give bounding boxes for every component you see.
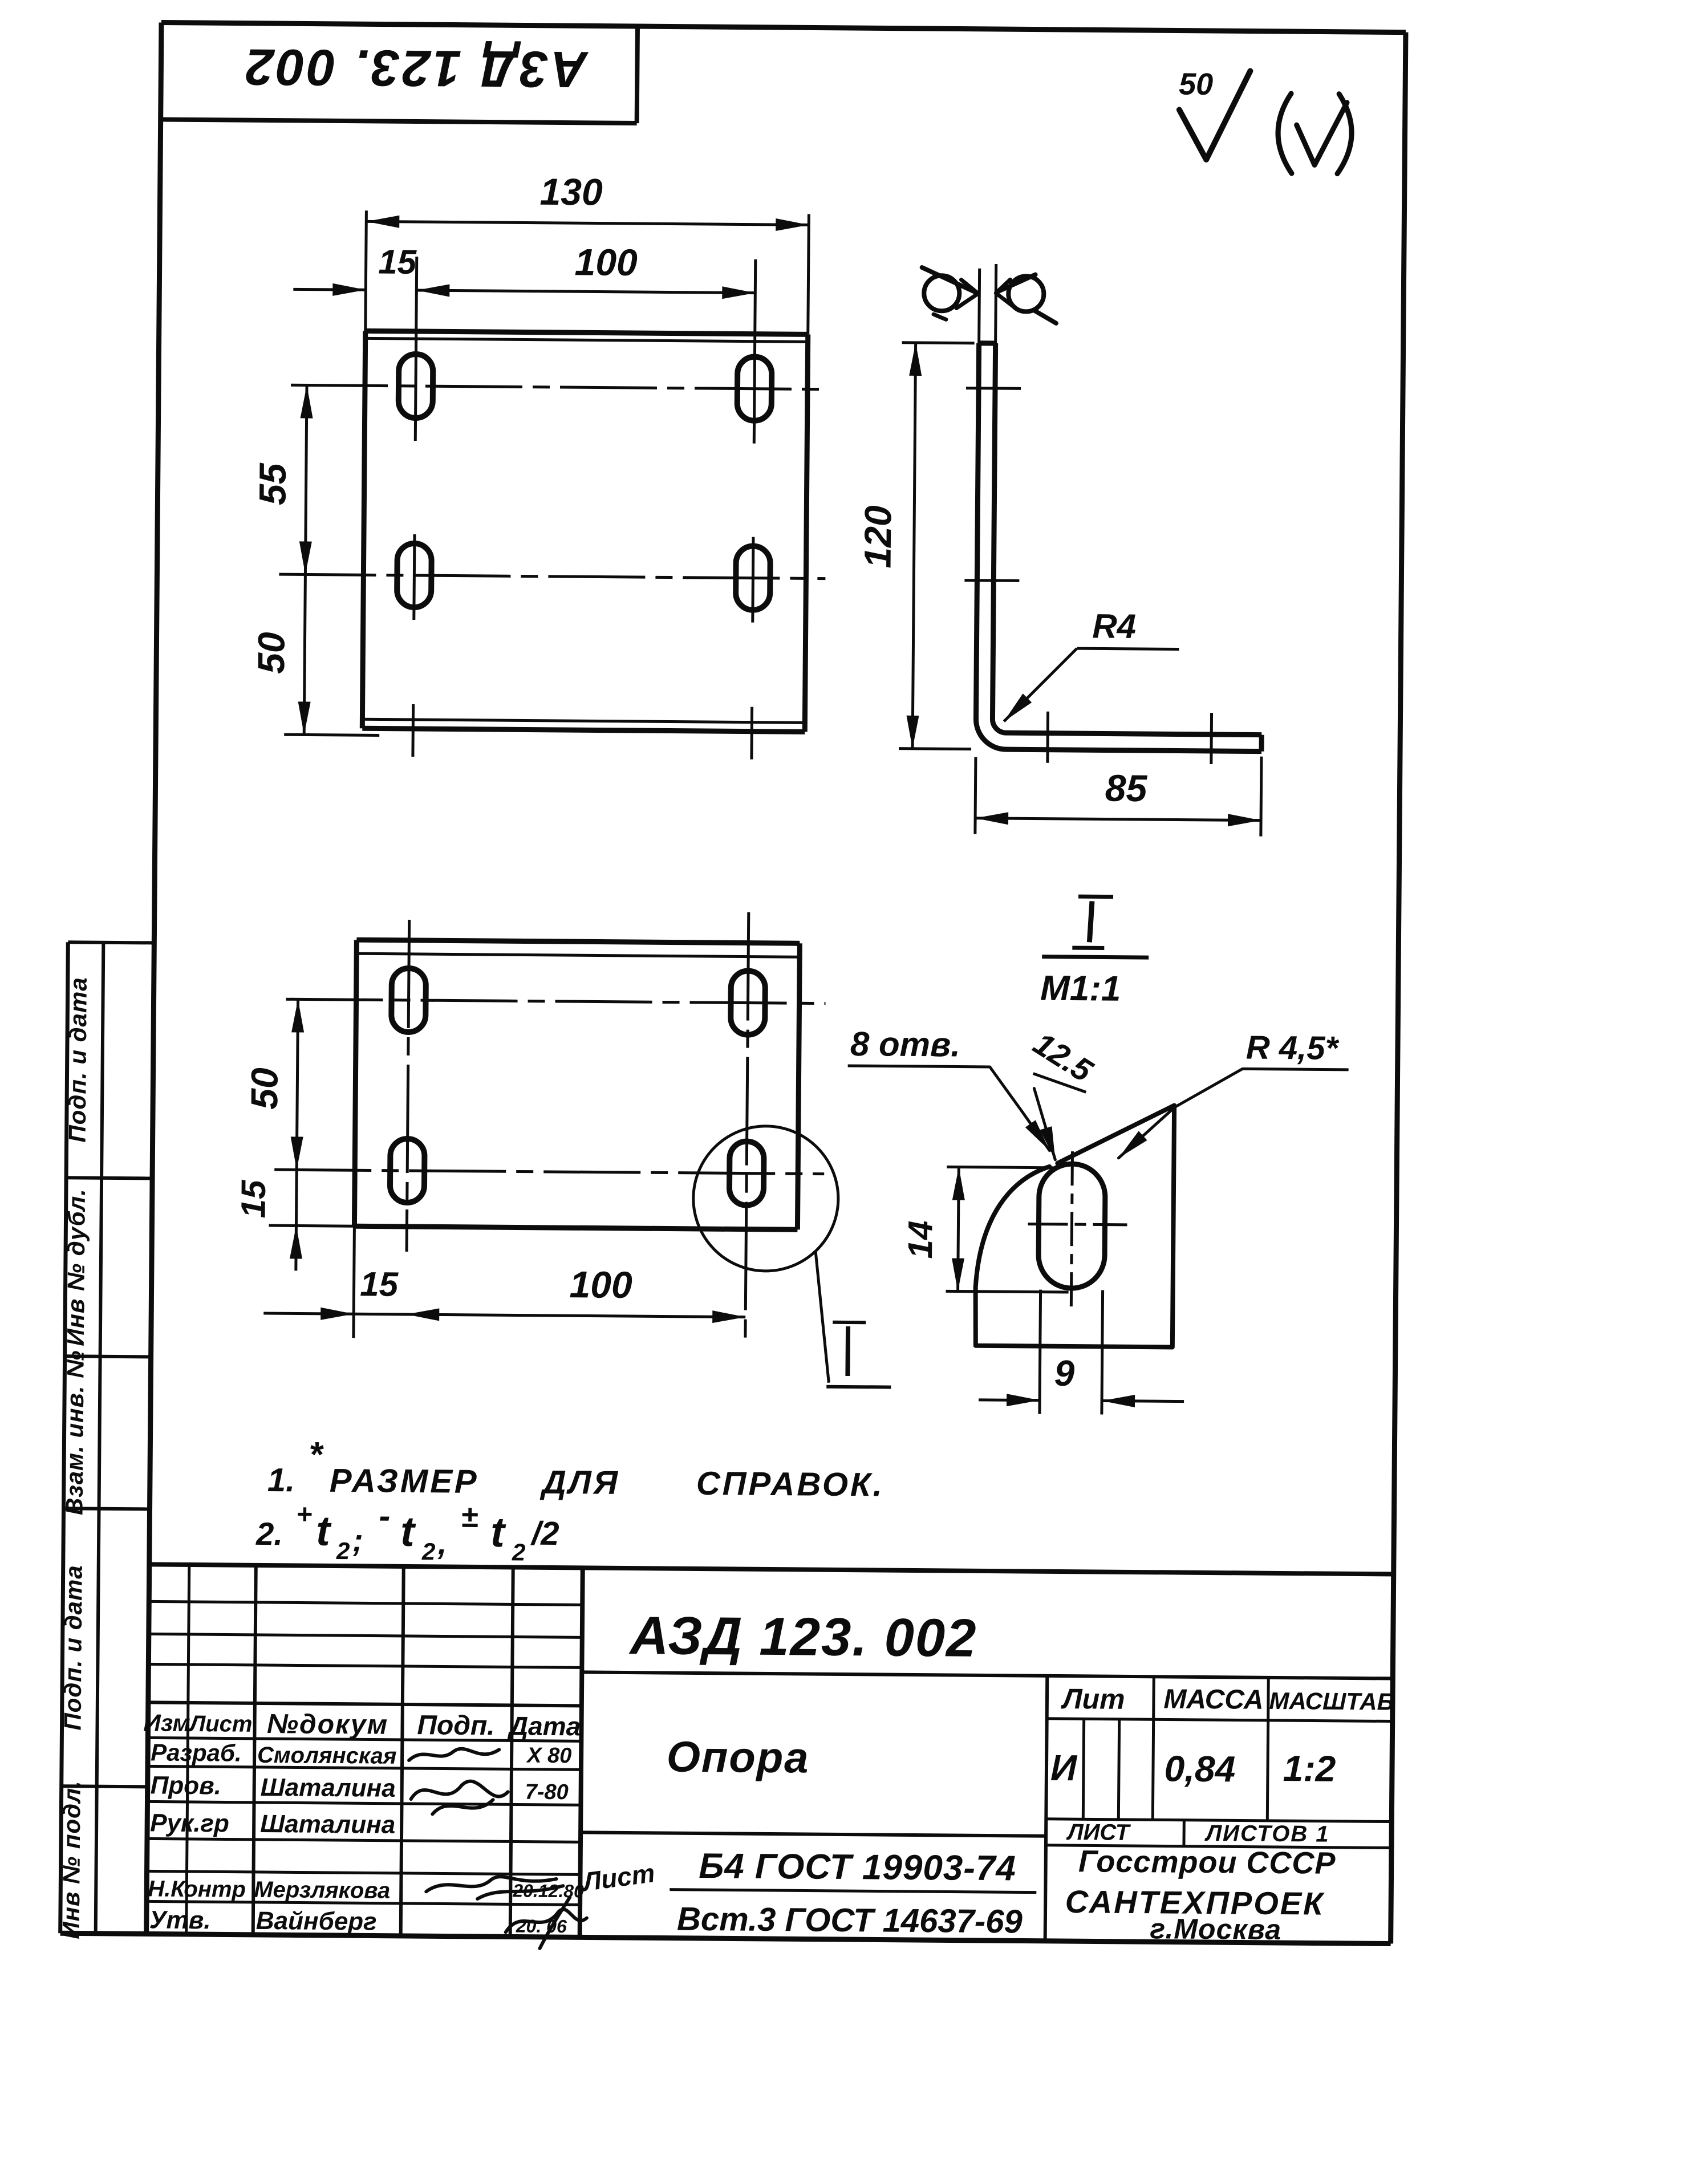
svg-text:Утв.: Утв. [149, 1906, 211, 1934]
svg-text:15: 15 [234, 1179, 273, 1219]
svg-text:8 отв.: 8 отв. [850, 1025, 960, 1064]
svg-text:Подп.: Подп. [417, 1710, 495, 1741]
svg-text:Лит: Лит [1061, 1683, 1125, 1715]
svg-text:АЗД 123. 002: АЗД 123. 002 [628, 1605, 977, 1668]
svg-text:Взам. инв. №: Взам. инв. № [60, 1350, 88, 1515]
svg-text:50: 50 [1179, 67, 1214, 102]
svg-text:Подп. и дата: Подп. и дата [59, 1565, 87, 1731]
svg-text:Инв № подл.: Инв № подл. [58, 1780, 86, 1939]
svg-text:100: 100 [574, 241, 638, 283]
svg-text:t: t [316, 1507, 332, 1554]
svg-text:X 80: X 80 [526, 1744, 571, 1768]
svg-text:МАСШТАБ: МАСШТАБ [1269, 1687, 1394, 1715]
svg-text:±: ± [461, 1500, 478, 1534]
svg-text:И: И [1050, 1747, 1078, 1788]
svg-text:Мерзлякова: Мерзлякова [254, 1877, 390, 1903]
svg-text:2: 2 [512, 1538, 526, 1565]
svg-text:130: 130 [539, 171, 603, 213]
svg-text:Вст.3 ГОСТ 14637-69: Вст.3 ГОСТ 14637-69 [677, 1901, 1023, 1941]
svg-text:РАЗМЕР: РАЗМЕР [330, 1462, 479, 1500]
svg-text:+: + [296, 1499, 312, 1529]
svg-text:Опора: Опора [666, 1733, 809, 1783]
svg-text:;: ; [352, 1522, 363, 1558]
svg-text:г.Москва: г.Москва [1150, 1913, 1281, 1946]
svg-text:Изм: Изм [143, 1709, 190, 1736]
svg-text:Шаталина: Шаталина [260, 1810, 395, 1839]
svg-text:85: 85 [1105, 767, 1148, 810]
svg-text:Госстрои СССР: Госстрои СССР [1078, 1844, 1336, 1881]
svg-text:0,84: 0,84 [1164, 1748, 1235, 1789]
svg-text:Рук.гр: Рук.гр [150, 1809, 229, 1837]
svg-text:ЛИСТ: ЛИСТ [1066, 1820, 1131, 1845]
svg-text:Разраб.: Разраб. [151, 1739, 242, 1766]
svg-text:2: 2 [421, 1538, 436, 1565]
svg-text:Пров.: Пров. [151, 1771, 222, 1800]
svg-text:50: 50 [243, 1067, 286, 1110]
svg-text:Н.Контр: Н.Контр [148, 1876, 246, 1902]
svg-text:9: 9 [1054, 1353, 1075, 1394]
svg-text:А3Д 123. 002: А3Д 123. 002 [243, 38, 589, 98]
svg-text:Дата: Дата [507, 1711, 581, 1741]
svg-text:t: t [400, 1508, 417, 1555]
svg-text:100: 100 [569, 1263, 632, 1306]
svg-text:55: 55 [251, 462, 294, 505]
svg-text:14: 14 [901, 1220, 940, 1259]
svg-text:,: , [437, 1525, 447, 1561]
svg-text:МАССА: МАССА [1163, 1684, 1263, 1715]
svg-text:ДЛЯ: ДЛЯ [539, 1464, 620, 1501]
svg-text:Лист: Лист [188, 1711, 253, 1737]
svg-text:2: 2 [336, 1537, 350, 1564]
svg-text:-: - [379, 1497, 391, 1535]
svg-text:*: * [309, 1435, 324, 1475]
svg-text:R4: R4 [1092, 607, 1136, 646]
svg-text:1.: 1. [267, 1462, 295, 1499]
svg-text:15: 15 [360, 1265, 399, 1304]
svg-text:СПРАВОК.: СПРАВОК. [696, 1465, 885, 1504]
svg-text:№докум: №докум [267, 1709, 389, 1740]
svg-text:Вайнберг: Вайнберг [256, 1907, 377, 1936]
svg-text:2.: 2. [255, 1516, 283, 1552]
svg-text:50: 50 [250, 632, 293, 674]
svg-text:Шаталина: Шаталина [261, 1773, 396, 1803]
svg-text:t: t [490, 1508, 507, 1556]
svg-text:20. 06: 20. 06 [516, 1915, 567, 1937]
svg-text:Б4 ГОСТ 19903-74: Б4 ГОСТ 19903-74 [699, 1846, 1016, 1888]
svg-text:Инв № дубл.: Инв № дубл. [62, 1188, 90, 1346]
svg-text:М1:1: М1:1 [1040, 969, 1121, 1009]
svg-text:/2: /2 [530, 1515, 559, 1552]
svg-text:7-80: 7-80 [525, 1780, 568, 1805]
svg-text:Подп. и дата: Подп. и дата [64, 977, 92, 1143]
svg-text:Смолянская: Смолянская [257, 1743, 397, 1769]
svg-text:ЛИСТОВ 1: ЛИСТОВ 1 [1204, 1821, 1330, 1847]
svg-text:15: 15 [378, 242, 417, 281]
svg-text:1:2: 1:2 [1283, 1748, 1336, 1789]
svg-text:120: 120 [857, 505, 899, 569]
svg-text:R 4,5*: R 4,5* [1246, 1029, 1340, 1066]
